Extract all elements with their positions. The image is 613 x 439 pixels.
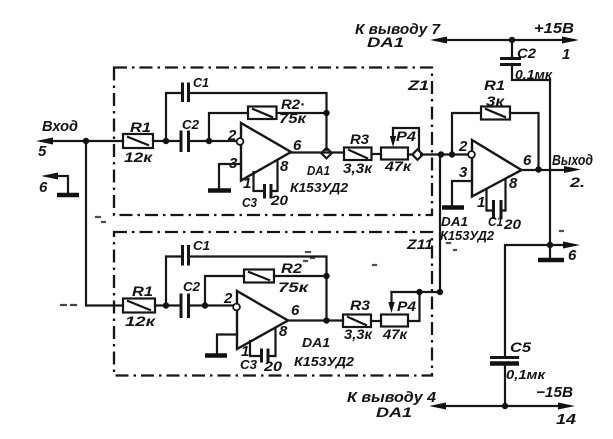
svg-text:С1: С1 (488, 214, 503, 229)
svg-text:47к: 47к (382, 326, 408, 342)
node after R1 lower (163, 302, 169, 308)
resistor R4 (47к) lower trimmer (381, 298, 416, 342)
svg-text:Р4: Р4 (397, 298, 416, 314)
wire to C1 lower (166, 257, 181, 306)
svg-text:R3: R3 (350, 297, 370, 313)
svg-text:0,1мк: 0,1мк (515, 67, 554, 82)
node after R1 upper (163, 138, 169, 144)
resistor R2 (75к) lower (244, 260, 309, 295)
svg-text:К153УД2: К153УД2 (290, 180, 349, 195)
wire pin3 upper (219, 164, 241, 189)
svg-text:С2: С2 (183, 279, 201, 294)
svg-text:12к: 12к (125, 313, 156, 329)
node output final (535, 166, 541, 172)
wire output final with arrow (522, 166, 582, 173)
wire R4 to op-amp 3 (408, 153, 468, 155)
node output diamond upper (321, 148, 332, 159)
label К выводу 4 DA1 (347, 389, 437, 420)
svg-text:8: 8 (509, 175, 518, 192)
svg-text:+15В: +15В (534, 20, 574, 37)
dash-dot box Z11 (114, 232, 432, 376)
capacitor C1 (20) final compensation (487, 180, 522, 232)
resistor R3 (3,3к) lower (343, 297, 373, 342)
svg-text:0,1мк: 0,1мк (506, 367, 547, 382)
node R4 right diamond upper (412, 149, 423, 160)
svg-text:С3: С3 (240, 357, 258, 372)
capacitor C5 (490, 339, 547, 406)
svg-text:−15В: −15В (536, 384, 573, 401)
svg-text:20: 20 (263, 358, 282, 374)
wire R4 wiper bracket upper (390, 128, 419, 150)
svg-text:DA1: DA1 (441, 214, 468, 229)
wire pin3 lower (217, 335, 237, 355)
node input junction (83, 138, 89, 144)
svg-text:С5: С5 (510, 339, 531, 355)
label DA1 К153УД2 lower (294, 335, 355, 369)
svg-text:С1: С1 (193, 75, 209, 90)
svg-text:R2: R2 (281, 260, 302, 276)
svg-text:R1: R1 (132, 283, 153, 299)
svg-text:DA1: DA1 (302, 335, 330, 350)
svg-text:R1: R1 (484, 77, 505, 93)
op-amp DA1 upper (227, 123, 302, 192)
node interconnect (438, 151, 444, 157)
svg-text:DA1: DA1 (367, 34, 404, 50)
wire C1 to output node upper (190, 93, 327, 150)
svg-text:1: 1 (477, 194, 485, 211)
svg-text:3к: 3к (486, 93, 505, 109)
capacitor C2 (0,1мк decoupling) (500, 40, 554, 82)
dash-dot box Z1 (114, 68, 432, 216)
capacitor C1 upper (183, 75, 210, 102)
svg-text:Z11: Z11 (406, 236, 433, 252)
wire R2 to output node lower (274, 275, 327, 277)
capacitor C2 upper (181, 117, 200, 152)
wire to C1 upper (166, 93, 181, 141)
wire input to lower block (86, 141, 123, 306)
svg-text:К153УД2: К153УД2 (294, 354, 355, 369)
ground pin3 final (442, 205, 464, 210)
svg-text:С2: С2 (517, 45, 536, 61)
node bottom rail (502, 403, 508, 409)
ground pin3 upper (208, 188, 231, 193)
svg-text:2: 2 (458, 138, 468, 155)
wire R3 to R4 lower (371, 320, 381, 322)
svg-text:47к: 47к (384, 158, 412, 174)
svg-text:Z1: Z1 (407, 77, 430, 93)
svg-text:1: 1 (562, 46, 570, 63)
label Выход 2. (552, 152, 593, 190)
svg-text:20: 20 (270, 192, 288, 208)
label К выводу 7 DA1 (355, 21, 441, 50)
capacitor C3 (20) lower compensation (240, 328, 282, 374)
svg-text:6: 6 (523, 152, 532, 169)
resistor R1 (12к) lower (123, 283, 156, 329)
wire pin3 final (452, 181, 472, 206)
svg-text:2: 2 (223, 290, 233, 307)
wire C2 to op-amp (190, 140, 237, 142)
svg-text:R3: R3 (350, 131, 369, 147)
svg-text:3: 3 (459, 164, 468, 181)
wire +15V top rail (430, 37, 579, 44)
svg-text:3,3к: 3,3к (344, 326, 373, 342)
node R2 right lower (323, 273, 329, 279)
svg-text:К153УД2: К153УД2 (440, 228, 495, 243)
svg-text:С2: С2 (182, 117, 200, 132)
svg-text:DA1: DA1 (376, 404, 412, 420)
node inverting input upper (206, 138, 212, 144)
svg-text:Выход: Выход (552, 152, 593, 169)
wire arrow pin 6 right (550, 242, 580, 265)
svg-text:2.: 2. (569, 174, 585, 190)
node inverting input lower (202, 302, 208, 308)
svg-text:75к: 75к (278, 279, 309, 295)
svg-text:С1: С1 (193, 238, 210, 253)
wire C1 to output node lower (190, 257, 327, 320)
resistor R4 (47к) upper trimmer (381, 128, 416, 174)
svg-text:6: 6 (568, 247, 577, 264)
wire R1 to C2 lower (155, 304, 180, 306)
wire -15V bottom rail (429, 403, 575, 410)
capacitor C2 lower (181, 279, 201, 318)
op-amp DA1 lower (223, 290, 300, 360)
speck marks (61, 304, 76, 306)
wire R1 to C2 (153, 140, 180, 142)
wire R1 to output final (510, 113, 539, 168)
node top rail / C2 junction (509, 37, 515, 43)
wire bracket to interconnect lower (392, 155, 441, 293)
svg-text:1: 1 (243, 175, 251, 192)
label DA1 К153УД2 final (440, 214, 495, 243)
node bracket corner lower (437, 289, 443, 295)
wire to C5 (505, 245, 550, 356)
svg-text:20: 20 (503, 216, 521, 232)
svg-text:6: 6 (39, 179, 48, 196)
wire input terminal 6 with ground (39, 173, 79, 197)
node right rail (547, 242, 553, 248)
svg-text:8: 8 (279, 323, 288, 340)
wire to R2 upper (209, 113, 248, 141)
svg-text:2: 2 (227, 127, 237, 144)
svg-text:С3: С3 (242, 195, 258, 210)
wire R4 right to wiper bracket lower (408, 292, 420, 321)
op-amp DA1 final (458, 138, 532, 211)
ground right rail (538, 245, 564, 260)
resistor R3 (3,3к) upper (343, 131, 373, 176)
capacitor C1 lower (183, 238, 211, 266)
node R2 right upper (323, 110, 329, 116)
wire op-amp output lower (288, 319, 343, 321)
resistor R1 (3к) final (481, 77, 510, 120)
svg-text:Р4: Р4 (396, 128, 416, 144)
node bracket lower (416, 289, 422, 295)
svg-text:5: 5 (38, 143, 47, 160)
node output lower (323, 317, 329, 323)
resistor R1 (12к) upper (123, 119, 153, 165)
svg-text:R1: R1 (130, 119, 151, 135)
wire R4 wiper arrow lower (388, 292, 394, 313)
wire C2 to op-amp lower (190, 304, 233, 306)
svg-text:DA1: DA1 (307, 163, 330, 178)
svg-text:12к: 12к (124, 149, 153, 165)
label DA1 К153УД2 upper (290, 163, 349, 195)
svg-text:8: 8 (280, 158, 289, 175)
capacitor C3 (20) upper compensation (242, 161, 288, 210)
resistor R2 (75к) upper (248, 96, 307, 126)
wire op-amp output upper (291, 151, 344, 153)
svg-text:6: 6 (291, 302, 300, 319)
svg-text:Вход: Вход (42, 118, 78, 135)
svg-text:14: 14 (556, 411, 577, 428)
node final inverting input (449, 151, 455, 157)
wire to R1 feedback final (452, 113, 481, 155)
wire right power rail (549, 80, 551, 245)
wire R3 to R4 upper (372, 153, 382, 155)
svg-text:3,3к: 3,3к (343, 160, 373, 176)
wire to R2 lower (205, 276, 244, 306)
wire R2 to output node upper (277, 112, 327, 114)
wire input with arrow, pin 5 (36, 138, 123, 161)
ground pin3 lower (205, 353, 227, 358)
